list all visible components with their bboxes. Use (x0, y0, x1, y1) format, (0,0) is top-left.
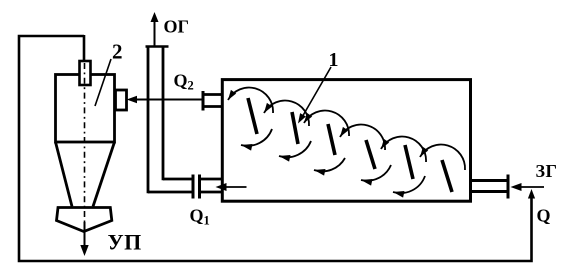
pipe: top flange (146, 45, 169, 48)
arrow Q1 into drum (222, 186, 247, 188)
fall arc 4 (lower) (361, 165, 391, 181)
flight bar 5 (405, 145, 413, 179)
flight bar 1 (248, 98, 257, 134)
svg-text:ЗГ: ЗГ (536, 161, 558, 181)
pipe: off-gas duct verticals (148, 47, 163, 193)
cascade arc 1 (upper) (228, 88, 273, 113)
leader line for label 1 (301, 67, 331, 119)
fall arc 3 (lower) (314, 158, 345, 171)
cyclone 2: cone (56, 142, 115, 207)
arrow Q upward on recycle riser (528, 189, 535, 199)
cascade arc 5 (upper) (381, 137, 426, 162)
svg-text:2: 2 (112, 40, 123, 64)
pipe: elbow walls to drum Q1 inlet (148, 179, 222, 192)
cyclone 2: vortex finder tube (80, 61, 91, 85)
wire: gas line drum to cyclone with arrow (133, 99, 203, 101)
svg-text:ОГ: ОГ (164, 17, 189, 37)
arrow ОГ (off-gas up) (154, 21, 156, 46)
flight bar 4 (366, 140, 375, 169)
cascade arc 2 (upper) (264, 101, 309, 126)
flange pair at Q1 (193, 175, 200, 199)
drum outlet stub + flange (205, 95, 223, 107)
svg-text:УП: УП (108, 230, 142, 255)
arrow УП (product out) (84, 222, 86, 247)
cyclone 2: inlet stub (116, 90, 127, 110)
flight bar 2 (292, 112, 298, 144)
cyclone 2: discharge hopper (57, 208, 112, 232)
leader line for label 2 (95, 59, 111, 106)
svg-text:Q: Q (537, 206, 551, 226)
drum gas inlet stub right + flange (471, 181, 507, 192)
wire: recycle loop left/bottom/right (19, 36, 532, 261)
arrow ЗГ into drum (517, 186, 544, 188)
cascade arc 6 (upper) (420, 145, 465, 170)
svg-text:1: 1 (329, 49, 339, 71)
fall arc 2 (lower) (279, 141, 311, 157)
fall arc 5 (lower) (393, 176, 425, 193)
wire: loop drop into vortex tube (83, 35, 86, 61)
fall arc 1 (lower) (241, 129, 272, 146)
flight bar 3 (328, 124, 335, 155)
flight bar 6 (442, 160, 452, 192)
centerline of cyclone (dash-dot) (84, 63, 86, 229)
cyclone 2: body (56, 75, 115, 143)
cascade arc 4 (upper) (340, 125, 385, 150)
drum 1: body (222, 80, 470, 202)
cascade arc 3 (upper) (304, 111, 349, 136)
